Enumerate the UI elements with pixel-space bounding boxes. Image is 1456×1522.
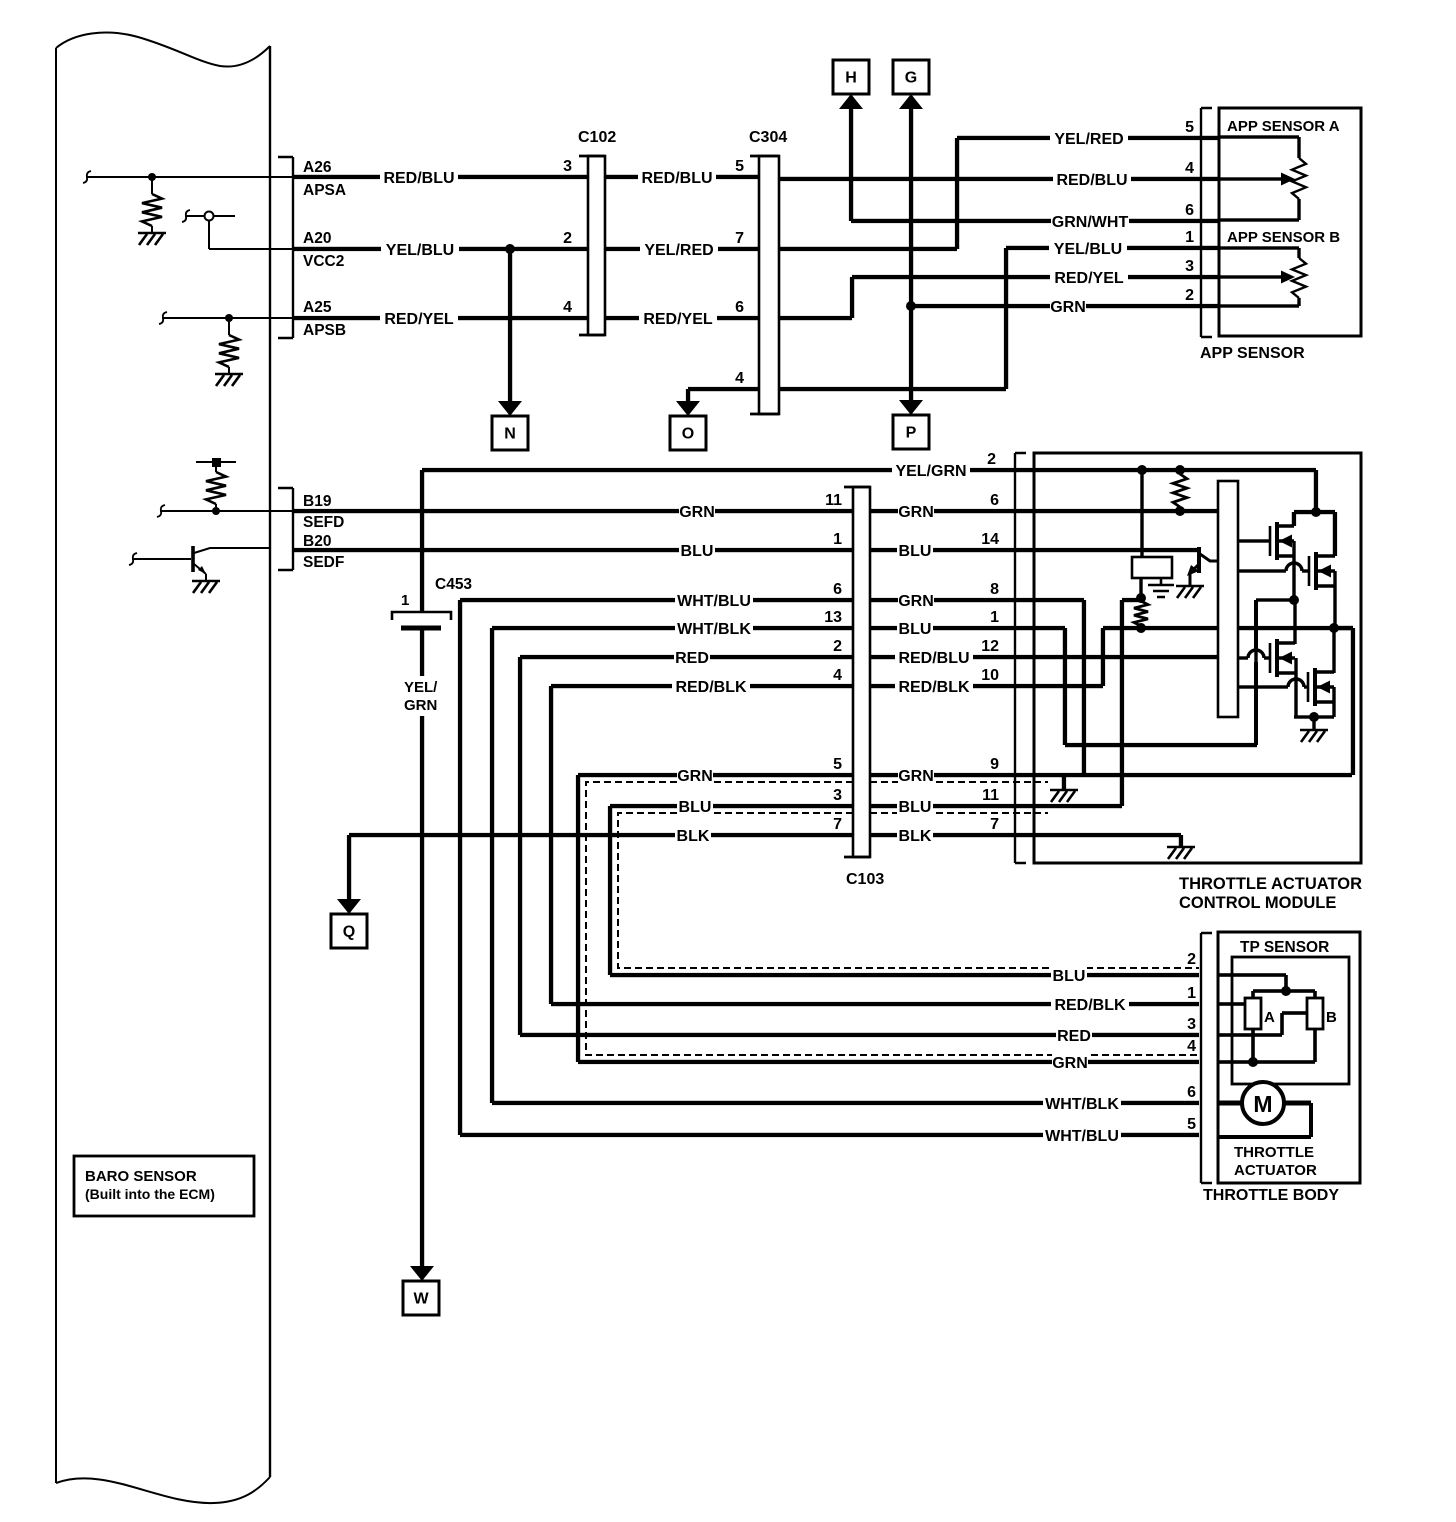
wire coil to resistor — [1139, 578, 1142, 598]
wire A20 internal with terminal circle — [185, 212, 293, 251]
label BLU — [897, 618, 933, 638]
label YEL/BLU — [1049, 238, 1127, 258]
APP sensor box — [1219, 108, 1361, 336]
ground TAC main — [1167, 847, 1195, 859]
transistor Q3 low-side A — [1269, 643, 1272, 673]
svg-text:B19: B19 — [303, 493, 332, 510]
svg-text:O: O — [682, 426, 694, 443]
svg-text:13: 13 — [824, 609, 842, 626]
wire BLU B20 to C103 pin 1 — [293, 548, 853, 552]
terminal label B19 SEFD — [303, 493, 344, 531]
svg-text:2: 2 — [987, 451, 996, 468]
arrow into P — [899, 400, 923, 415]
label RED/BLK bottom — [1051, 994, 1129, 1014]
svg-text:RED/BLU: RED/BLU — [641, 170, 712, 187]
wire WHT/BLK to C103 pin 13 and throttle body pin 6 — [490, 626, 1199, 1105]
label WHT/BLK bottom — [1043, 1093, 1121, 1113]
svg-text:BLU: BLU — [1053, 968, 1086, 985]
terminal label A25 APSB — [303, 299, 346, 339]
arrow into G — [899, 94, 923, 109]
node YEL/BLU junction to N — [505, 244, 515, 254]
svg-text:THROTTLE BODY: THROTTLE BODY — [1203, 1187, 1339, 1204]
svg-text:RED/YEL: RED/YEL — [384, 311, 454, 328]
svg-text:2: 2 — [1187, 951, 1196, 968]
svg-text:6: 6 — [1185, 202, 1194, 219]
svg-text:THROTTLE: THROTTLE — [1234, 1144, 1314, 1161]
svg-text:CONTROL MODULE: CONTROL MODULE — [1179, 894, 1336, 912]
label YEL/GRN — [892, 460, 970, 480]
FET Q4 gate lead with hop — [1238, 685, 1308, 688]
svg-text:11: 11 — [982, 787, 999, 804]
svg-text:11: 11 — [825, 492, 842, 509]
svg-text:SEFD: SEFD — [303, 514, 344, 531]
label GRN — [679, 501, 715, 521]
connector C102 — [579, 156, 605, 335]
wire GRN B19 to C103 pin 11 — [293, 509, 853, 513]
wire junction down to N — [508, 249, 512, 402]
resistor ECM pull-down A25 — [219, 318, 239, 374]
svg-text:YEL/BLU: YEL/BLU — [386, 242, 454, 259]
wire TP pin 4 low — [1218, 1029, 1317, 1064]
node GRN junction — [906, 301, 916, 311]
label GRN — [898, 501, 934, 521]
node motor B node — [1329, 623, 1339, 633]
wire RED/BLU A26 to C102 pin 3 — [293, 175, 588, 179]
wire TP pin 2 supply — [1218, 973, 1317, 998]
svg-text:RED/BLK: RED/BLK — [675, 679, 747, 696]
chassis ground TAC coil — [1148, 578, 1174, 597]
label YEL/BLU — [381, 239, 459, 259]
resistor ECM B19 with terminal pad — [196, 458, 236, 511]
wire C304 pin 4 to O — [686, 387, 759, 402]
BARO SENSOR label box (built into ECM) — [74, 1156, 254, 1216]
svg-text:RED/YEL: RED/YEL — [643, 311, 713, 328]
label GRN — [898, 590, 934, 610]
ground TAC shield — [1050, 790, 1078, 802]
resistor TAC bias — [1134, 601, 1148, 626]
svg-text:3: 3 — [563, 158, 572, 175]
label BLU — [897, 796, 933, 816]
svg-text:RED/BLU: RED/BLU — [383, 170, 454, 187]
label YEL/GRN vertical — [402, 676, 448, 716]
label GRN — [677, 765, 713, 785]
svg-text:7: 7 — [833, 816, 842, 833]
svg-text:B: B — [1326, 1009, 1337, 1026]
wire BLU shielded C103 pin 3 to throttle body pin 2 — [608, 804, 1199, 977]
motor throttle actuator — [1218, 1082, 1313, 1139]
label GRN — [1050, 296, 1086, 316]
svg-text:5: 5 — [833, 756, 842, 773]
svg-text:8: 8 — [990, 581, 999, 598]
ECM body outline (torn edges) — [56, 33, 270, 1504]
terminal label B20 SEDF — [303, 533, 344, 571]
break A25 — [159, 312, 167, 324]
svg-text:C103: C103 — [846, 871, 884, 888]
transistor Q2 high-side B — [1308, 556, 1311, 586]
label GRN bottom — [1052, 1052, 1088, 1072]
label BLU — [897, 540, 933, 560]
connector W — [403, 1281, 439, 1315]
potentiometer APP sensor B — [1219, 246, 1306, 307]
svg-text:WHT/BLK: WHT/BLK — [677, 621, 751, 638]
wire upper bridge rail — [1292, 510, 1337, 556]
connector C103 — [844, 487, 870, 857]
ground ECM B20 emitter — [192, 581, 220, 593]
label WHT/BLU — [675, 590, 753, 610]
svg-text:4: 4 — [735, 370, 744, 387]
wire YEL/RED C102 to C304 pin 7 — [605, 247, 759, 251]
svg-text:Q: Q — [343, 924, 355, 941]
connector bracket TAC module — [1015, 453, 1026, 863]
node resistor top — [1136, 593, 1146, 603]
svg-text:4: 4 — [833, 667, 842, 684]
svg-text:M: M — [1253, 1091, 1272, 1117]
svg-text:1: 1 — [1185, 229, 1194, 246]
wire WHT/BLU to C103 pin 6 and throttle body pin 5 — [458, 598, 1199, 1137]
break B19 — [157, 505, 165, 517]
svg-text:A25: A25 — [303, 299, 332, 316]
wire motor B link — [1334, 626, 1355, 775]
svg-text:GRN: GRN — [898, 768, 934, 785]
break A20 — [182, 210, 190, 222]
svg-text:2: 2 — [833, 638, 842, 655]
shield BLU dashed — [618, 813, 1199, 968]
wire RED/BLK C103 to TAC pin 10 — [870, 684, 1034, 688]
svg-text:2: 2 — [1185, 287, 1194, 304]
TP SENSOR box — [1232, 957, 1349, 1084]
FET Q2 gate lead with hop — [1238, 569, 1309, 572]
transistor Q1 high-side A — [1269, 526, 1272, 556]
label RED/YEL — [1050, 267, 1128, 287]
svg-text:APSB: APSB — [303, 322, 346, 339]
svg-text:YEL/RED: YEL/RED — [1054, 131, 1123, 148]
connector C304 — [750, 156, 779, 414]
ground TAC bridge — [1300, 730, 1328, 742]
svg-text:BLU: BLU — [899, 543, 932, 560]
potentiometer APP sensor A — [1219, 135, 1306, 221]
FET Q3 gate lead with hop — [1238, 656, 1270, 659]
svg-text:YEL/GRN: YEL/GRN — [895, 463, 966, 480]
driver IC bar TAC — [1218, 481, 1238, 717]
svg-text:GRN: GRN — [898, 593, 934, 610]
svg-text:RED/BLU: RED/BLU — [1056, 172, 1127, 189]
svg-text:BARO SENSOR: BARO SENSOR — [85, 1168, 197, 1185]
wire Q2 source down — [1333, 571, 1336, 629]
svg-text:BLU: BLU — [679, 799, 712, 816]
svg-text:5: 5 — [1185, 119, 1194, 136]
wire YEL/BLU C304 pin 4 to APP pin 1 — [779, 246, 1219, 391]
wire TAC pin 8 row — [1034, 598, 1086, 775]
arrow into W — [410, 1266, 434, 1281]
resistor ECM pull-down A26 — [142, 177, 162, 233]
wire TP pin 1 wiper A — [1218, 1002, 1245, 1006]
svg-text:6: 6 — [735, 299, 744, 316]
svg-text:3: 3 — [1187, 1016, 1196, 1033]
node TP bottom — [1248, 1057, 1258, 1067]
wire YEL/BLU A20 to C102 pin 2 — [293, 247, 588, 251]
wire RED/YEL C304 pin 6 to APP pin 3 — [779, 275, 1219, 320]
label BLK — [897, 825, 933, 845]
wire GRN C103 to TAC pin 6 — [870, 509, 1034, 513]
node source rail — [1309, 712, 1319, 722]
svg-text:GRN: GRN — [679, 504, 715, 521]
svg-text:1: 1 — [990, 609, 999, 626]
node A26 pull-down junction — [148, 173, 156, 181]
label THROTTLE ACTUATOR CONTROL MODULE — [1179, 875, 1362, 912]
wire TP pin 3 wiper B — [1218, 1011, 1307, 1037]
label RED — [674, 647, 710, 667]
wire RED/YEL C102 to C304 pin 6 — [605, 316, 759, 320]
svg-text:WHT/BLU: WHT/BLU — [1045, 1128, 1119, 1145]
wire GRN shielded C103 pin 5 to throttle body pin 4 — [576, 773, 1199, 1064]
svg-text:6: 6 — [1187, 1084, 1196, 1101]
svg-text:GRN/WHT: GRN/WHT — [1052, 214, 1129, 231]
node rail junction 2 — [1175, 465, 1185, 475]
wire GRN C103 to TAC pin 8 — [870, 598, 1034, 602]
ECM connector bracket B19/B20 — [278, 488, 293, 570]
label RED/BLU — [895, 647, 973, 667]
node upper rail — [1311, 507, 1321, 517]
label BLK — [675, 825, 711, 845]
transistor Q4 low-side B — [1307, 672, 1310, 702]
svg-text:RED/BLU: RED/BLU — [898, 650, 969, 667]
wire Q3 source down — [1294, 658, 1297, 717]
node TP top — [1281, 986, 1291, 996]
svg-text:YEL/BLU: YEL/BLU — [1054, 241, 1122, 258]
wire TAC pin 6 row — [1034, 509, 1218, 513]
svg-text:5: 5 — [1187, 1116, 1196, 1133]
wire YEL/GRN riser to W — [420, 468, 1034, 1267]
ground ECM A25 — [215, 374, 243, 386]
potentiometer TP B — [1307, 998, 1323, 1029]
svg-text:THROTTLE ACTUATOR: THROTTLE ACTUATOR — [1179, 875, 1362, 893]
svg-text:APP SENSOR: APP SENSOR — [1200, 345, 1305, 362]
svg-text:N: N — [504, 426, 516, 443]
svg-text:ACTUATOR: ACTUATOR — [1234, 1162, 1317, 1179]
label RED/BLK — [895, 676, 973, 696]
arrow into H — [839, 94, 863, 109]
svg-text:1: 1 — [833, 531, 842, 548]
svg-text:4: 4 — [1185, 160, 1194, 177]
label RED/BLK — [672, 676, 750, 696]
label RED/YEL — [639, 308, 717, 328]
svg-text:C304: C304 — [749, 129, 787, 146]
svg-text:7: 7 — [990, 816, 999, 833]
label RED/YEL — [380, 308, 458, 328]
wire BLU C103 to TAC pin 14 — [870, 548, 1034, 552]
wire GRN shielded C103 to TAC pin 9 — [870, 773, 1034, 782]
svg-text:C102: C102 — [578, 129, 616, 146]
potentiometer TP A — [1245, 998, 1261, 1029]
wire low-side source rail — [1294, 687, 1336, 730]
label WHT/BLK — [675, 618, 753, 638]
label RED/BLU — [638, 167, 716, 187]
label RED bottom — [1056, 1025, 1092, 1045]
connector G — [893, 60, 929, 94]
svg-text:1: 1 — [1187, 985, 1196, 1002]
svg-text:6: 6 — [990, 492, 999, 509]
wire TAC pin 7 row to ground — [1034, 833, 1183, 847]
svg-text:YEL/: YEL/ — [404, 679, 438, 696]
svg-text:10: 10 — [981, 667, 999, 684]
svg-text:BLU: BLU — [681, 543, 714, 560]
wire RED/BLK to C103 pin 4 and throttle body pin 1 — [549, 684, 1199, 1006]
ground ECM A26 — [138, 233, 166, 245]
wire RED/BLU C304 pin 5 to APP pin 4 — [779, 177, 1219, 181]
svg-text:SEDF: SEDF — [303, 554, 344, 571]
svg-text:RED: RED — [675, 650, 709, 667]
svg-text:APP SENSOR A: APP SENSOR A — [1227, 118, 1340, 135]
label WHT/BLU bottom — [1043, 1125, 1121, 1145]
wire TAC pin 10 row — [1034, 628, 1105, 688]
transistor ECM driver B20 — [193, 546, 271, 580]
label RED/BLU — [1053, 169, 1131, 189]
wire BLU shielded C103 to TAC pin 11 — [870, 804, 1034, 813]
svg-text:2: 2 — [563, 230, 572, 247]
svg-text:BLK: BLK — [899, 828, 932, 845]
node B19 junction — [212, 507, 220, 515]
THROTTLE ACTUATOR CONTROL MODULE box — [1034, 453, 1361, 863]
svg-text:RED: RED — [1057, 1028, 1091, 1045]
connector bracket APP sensor — [1201, 108, 1212, 337]
relay coil box TAC — [1132, 470, 1172, 578]
arrow into Q — [337, 899, 361, 914]
connector N — [492, 416, 528, 450]
wire Q3 drain up — [1293, 600, 1296, 644]
label YEL/RED — [1050, 128, 1128, 148]
svg-text:WHT/BLK: WHT/BLK — [1045, 1096, 1119, 1113]
svg-text:(Built into the ECM): (Built into the ECM) — [85, 1186, 215, 1202]
label YEL/RED — [640, 239, 718, 259]
svg-text:7: 7 — [735, 230, 744, 247]
svg-text:BLK: BLK — [677, 828, 710, 845]
wire Q1 source down — [1292, 541, 1295, 600]
label BLU bottom — [1051, 965, 1087, 985]
svg-text:BLU: BLU — [899, 799, 932, 816]
svg-text:RED/BLK: RED/BLK — [898, 679, 970, 696]
svg-text:GRN: GRN — [898, 504, 934, 521]
svg-text:3: 3 — [833, 787, 842, 804]
svg-text:A20: A20 — [303, 230, 331, 247]
svg-text:VCC2: VCC2 — [303, 253, 344, 270]
wire TAC pin 14 row to transistor base — [1034, 548, 1197, 552]
ECM connector bracket A26/A20/A25 — [278, 157, 293, 338]
svg-text:C453: C453 — [435, 576, 472, 593]
connector P — [893, 415, 929, 449]
connector O — [670, 416, 706, 450]
FET Q1 gate lead — [1238, 539, 1270, 542]
svg-text:BLU: BLU — [899, 621, 932, 638]
terminal label A26 APSA — [303, 159, 346, 199]
svg-text:RED/YEL: RED/YEL — [1054, 270, 1124, 287]
svg-text:B20: B20 — [303, 533, 331, 550]
connector Q — [331, 914, 367, 948]
connector bracket throttle body — [1201, 933, 1212, 1183]
wire BLU C103 to TAC pin 1 — [870, 626, 1034, 630]
node A25 pull-down junction — [225, 314, 233, 322]
wire TAC pin 11 row — [1034, 804, 1122, 813]
svg-text:W: W — [413, 1291, 429, 1308]
wire BLK C103 to TAC pin 7 — [870, 833, 1034, 837]
wire TAC pin 12 row — [1034, 655, 1218, 659]
svg-text:4: 4 — [563, 299, 572, 316]
label THROTTLE ACTUATOR — [1234, 1144, 1317, 1179]
wire BLK C103 pin 7 to Q — [347, 833, 853, 900]
break B20 — [129, 553, 137, 565]
wire YEL/RED C304 pin 7 to APP pin 5 — [779, 136, 1219, 251]
svg-text:14: 14 — [981, 531, 999, 548]
terminal label A20 VCC2 — [303, 230, 344, 270]
transistor TAC driver — [1187, 547, 1218, 586]
label BLU — [677, 796, 713, 816]
svg-text:GRN: GRN — [677, 768, 713, 785]
svg-text:6: 6 — [833, 581, 842, 598]
wire GRN/WHT to APP pin 6 and H — [849, 106, 1219, 223]
svg-text:APSA: APSA — [303, 182, 346, 199]
wire Q4 drain up — [1332, 629, 1335, 673]
resistor TAC pull-up — [1173, 474, 1187, 507]
svg-text:APP SENSOR B: APP SENSOR B — [1227, 229, 1340, 246]
connector C453 — [392, 612, 451, 631]
wire TAC pin 2 rail — [1034, 468, 1318, 512]
svg-text:GRN: GRN — [1052, 1055, 1088, 1072]
wire gate feed row — [1103, 598, 1353, 806]
svg-text:GRN: GRN — [404, 697, 437, 714]
svg-text:GRN: GRN — [1050, 299, 1086, 316]
label RED/BLU — [380, 167, 458, 187]
svg-text:TP SENSOR: TP SENSOR — [1240, 939, 1329, 956]
svg-text:5: 5 — [735, 158, 744, 175]
svg-text:4: 4 — [1187, 1038, 1196, 1055]
label GRN/WHT — [1051, 211, 1129, 231]
node rail junction 1 — [1137, 465, 1147, 475]
svg-text:YEL/RED: YEL/RED — [644, 242, 713, 259]
svg-text:P: P — [906, 425, 917, 442]
wire GRN APP pin 2 to G and P — [909, 106, 1219, 405]
wire RED/YEL A25 to C102 pin 4 — [293, 316, 588, 320]
wire A25 internal — [162, 317, 293, 319]
shield GRN dashed — [586, 782, 1199, 1055]
label GRN — [898, 765, 934, 785]
node resistor bottom on gate row — [1136, 623, 1146, 633]
wire B19 internal — [160, 510, 293, 512]
wire TAC pin 9 row to ground — [1034, 773, 1352, 790]
arrow into O — [676, 401, 700, 416]
wire motor A link — [1065, 598, 1294, 747]
node motor A node — [1289, 595, 1299, 605]
node resistor bottom — [1175, 506, 1185, 516]
svg-text:A: A — [1264, 1009, 1275, 1026]
wire A26 internal — [86, 176, 293, 178]
break A26 — [83, 171, 91, 183]
wire RED to C103 pin 2 and throttle body pin 3 — [518, 655, 1199, 1037]
wire RED/BLU C102 to C304 pin 5 — [605, 175, 759, 179]
wire B20 base lead — [132, 558, 191, 560]
wire RED/BLU C103 to TAC pin 12 — [870, 655, 1034, 659]
svg-text:3: 3 — [1185, 258, 1194, 275]
svg-text:WHT/BLU: WHT/BLU — [677, 593, 751, 610]
label BLU — [679, 540, 715, 560]
THROTTLE BODY box — [1218, 932, 1360, 1183]
ground TAC transistor emitter — [1176, 586, 1204, 598]
svg-text:9: 9 — [990, 756, 999, 773]
svg-text:12: 12 — [981, 638, 999, 655]
svg-text:A26: A26 — [303, 159, 332, 176]
connector H — [833, 60, 869, 94]
svg-text:1: 1 — [401, 592, 409, 609]
svg-text:RED/BLK: RED/BLK — [1054, 997, 1126, 1014]
wire TAC pin 1 row — [1034, 626, 1067, 745]
